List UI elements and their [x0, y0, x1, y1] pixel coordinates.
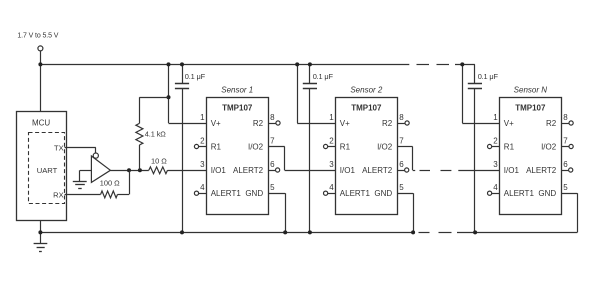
svg-text:4: 4 [493, 183, 498, 192]
svg-text:I/O2: I/O2 [248, 142, 264, 151]
svg-text:GND: GND [374, 189, 392, 198]
svg-text:V+: V+ [211, 119, 221, 128]
svg-text:Sensor N: Sensor N [514, 85, 548, 94]
svg-text:V+: V+ [504, 119, 514, 128]
svg-text:4: 4 [200, 183, 205, 192]
svg-text:I/O2: I/O2 [377, 142, 393, 151]
svg-text:ALERT1: ALERT1 [340, 189, 371, 198]
svg-text:R2: R2 [253, 119, 264, 128]
svg-text:7: 7 [399, 136, 404, 145]
svg-text:R1: R1 [211, 142, 222, 151]
svg-text:I/O1: I/O1 [504, 166, 520, 175]
svg-text:R2: R2 [382, 119, 393, 128]
svg-text:ALERT2: ALERT2 [233, 166, 264, 175]
svg-text:I/O2: I/O2 [541, 142, 557, 151]
svg-text:ALERT2: ALERT2 [526, 166, 557, 175]
svg-text:100 Ω: 100 Ω [100, 179, 120, 188]
svg-text:6: 6 [399, 160, 404, 169]
svg-text:UART: UART [37, 166, 58, 175]
svg-text:0.1 μF: 0.1 μF [185, 72, 206, 81]
svg-text:5: 5 [270, 183, 275, 192]
svg-text:1.7 V to 5.5 V: 1.7 V to 5.5 V [17, 33, 58, 40]
svg-text:4: 4 [329, 183, 334, 192]
svg-text:MCU: MCU [32, 118, 50, 127]
svg-text:ALERT1: ALERT1 [211, 189, 242, 198]
svg-text:Sensor 1: Sensor 1 [221, 85, 253, 94]
svg-text:6: 6 [270, 160, 275, 169]
svg-text:I/O1: I/O1 [211, 166, 227, 175]
svg-text:6: 6 [563, 160, 568, 169]
svg-text:1: 1 [200, 113, 205, 122]
svg-text:GND: GND [538, 189, 556, 198]
svg-text:2: 2 [329, 136, 334, 145]
svg-text:TMP107: TMP107 [515, 104, 546, 113]
svg-text:R1: R1 [504, 142, 515, 151]
svg-text:2: 2 [493, 136, 498, 145]
svg-text:1: 1 [493, 113, 498, 122]
svg-text:Sensor 2: Sensor 2 [350, 85, 383, 94]
svg-text:TMP107: TMP107 [222, 104, 253, 113]
svg-text:ALERT2: ALERT2 [362, 166, 393, 175]
svg-text:3: 3 [329, 160, 334, 169]
svg-text:3: 3 [200, 160, 205, 169]
svg-text:2: 2 [200, 136, 205, 145]
svg-text:5: 5 [399, 183, 404, 192]
svg-text:10 Ω: 10 Ω [151, 156, 167, 165]
svg-text:TMP107: TMP107 [351, 104, 382, 113]
svg-text:7: 7 [270, 136, 275, 145]
svg-text:4.1 kΩ: 4.1 kΩ [145, 130, 166, 139]
svg-text:0.1 μF: 0.1 μF [478, 72, 499, 81]
svg-text:0.1 μF: 0.1 μF [313, 72, 334, 81]
svg-text:8: 8 [563, 113, 568, 122]
svg-text:R2: R2 [546, 119, 557, 128]
svg-text:8: 8 [399, 113, 404, 122]
svg-text:3: 3 [493, 160, 498, 169]
svg-text:ALERT1: ALERT1 [504, 189, 535, 198]
svg-text:8: 8 [270, 113, 275, 122]
svg-text:RX: RX [53, 190, 63, 199]
svg-text:1: 1 [329, 113, 334, 122]
svg-text:TX: TX [54, 143, 64, 152]
svg-text:I/O1: I/O1 [340, 166, 356, 175]
svg-text:V+: V+ [340, 119, 350, 128]
svg-text:R1: R1 [340, 142, 351, 151]
svg-text:7: 7 [563, 136, 568, 145]
svg-text:5: 5 [563, 183, 568, 192]
svg-text:GND: GND [245, 189, 263, 198]
